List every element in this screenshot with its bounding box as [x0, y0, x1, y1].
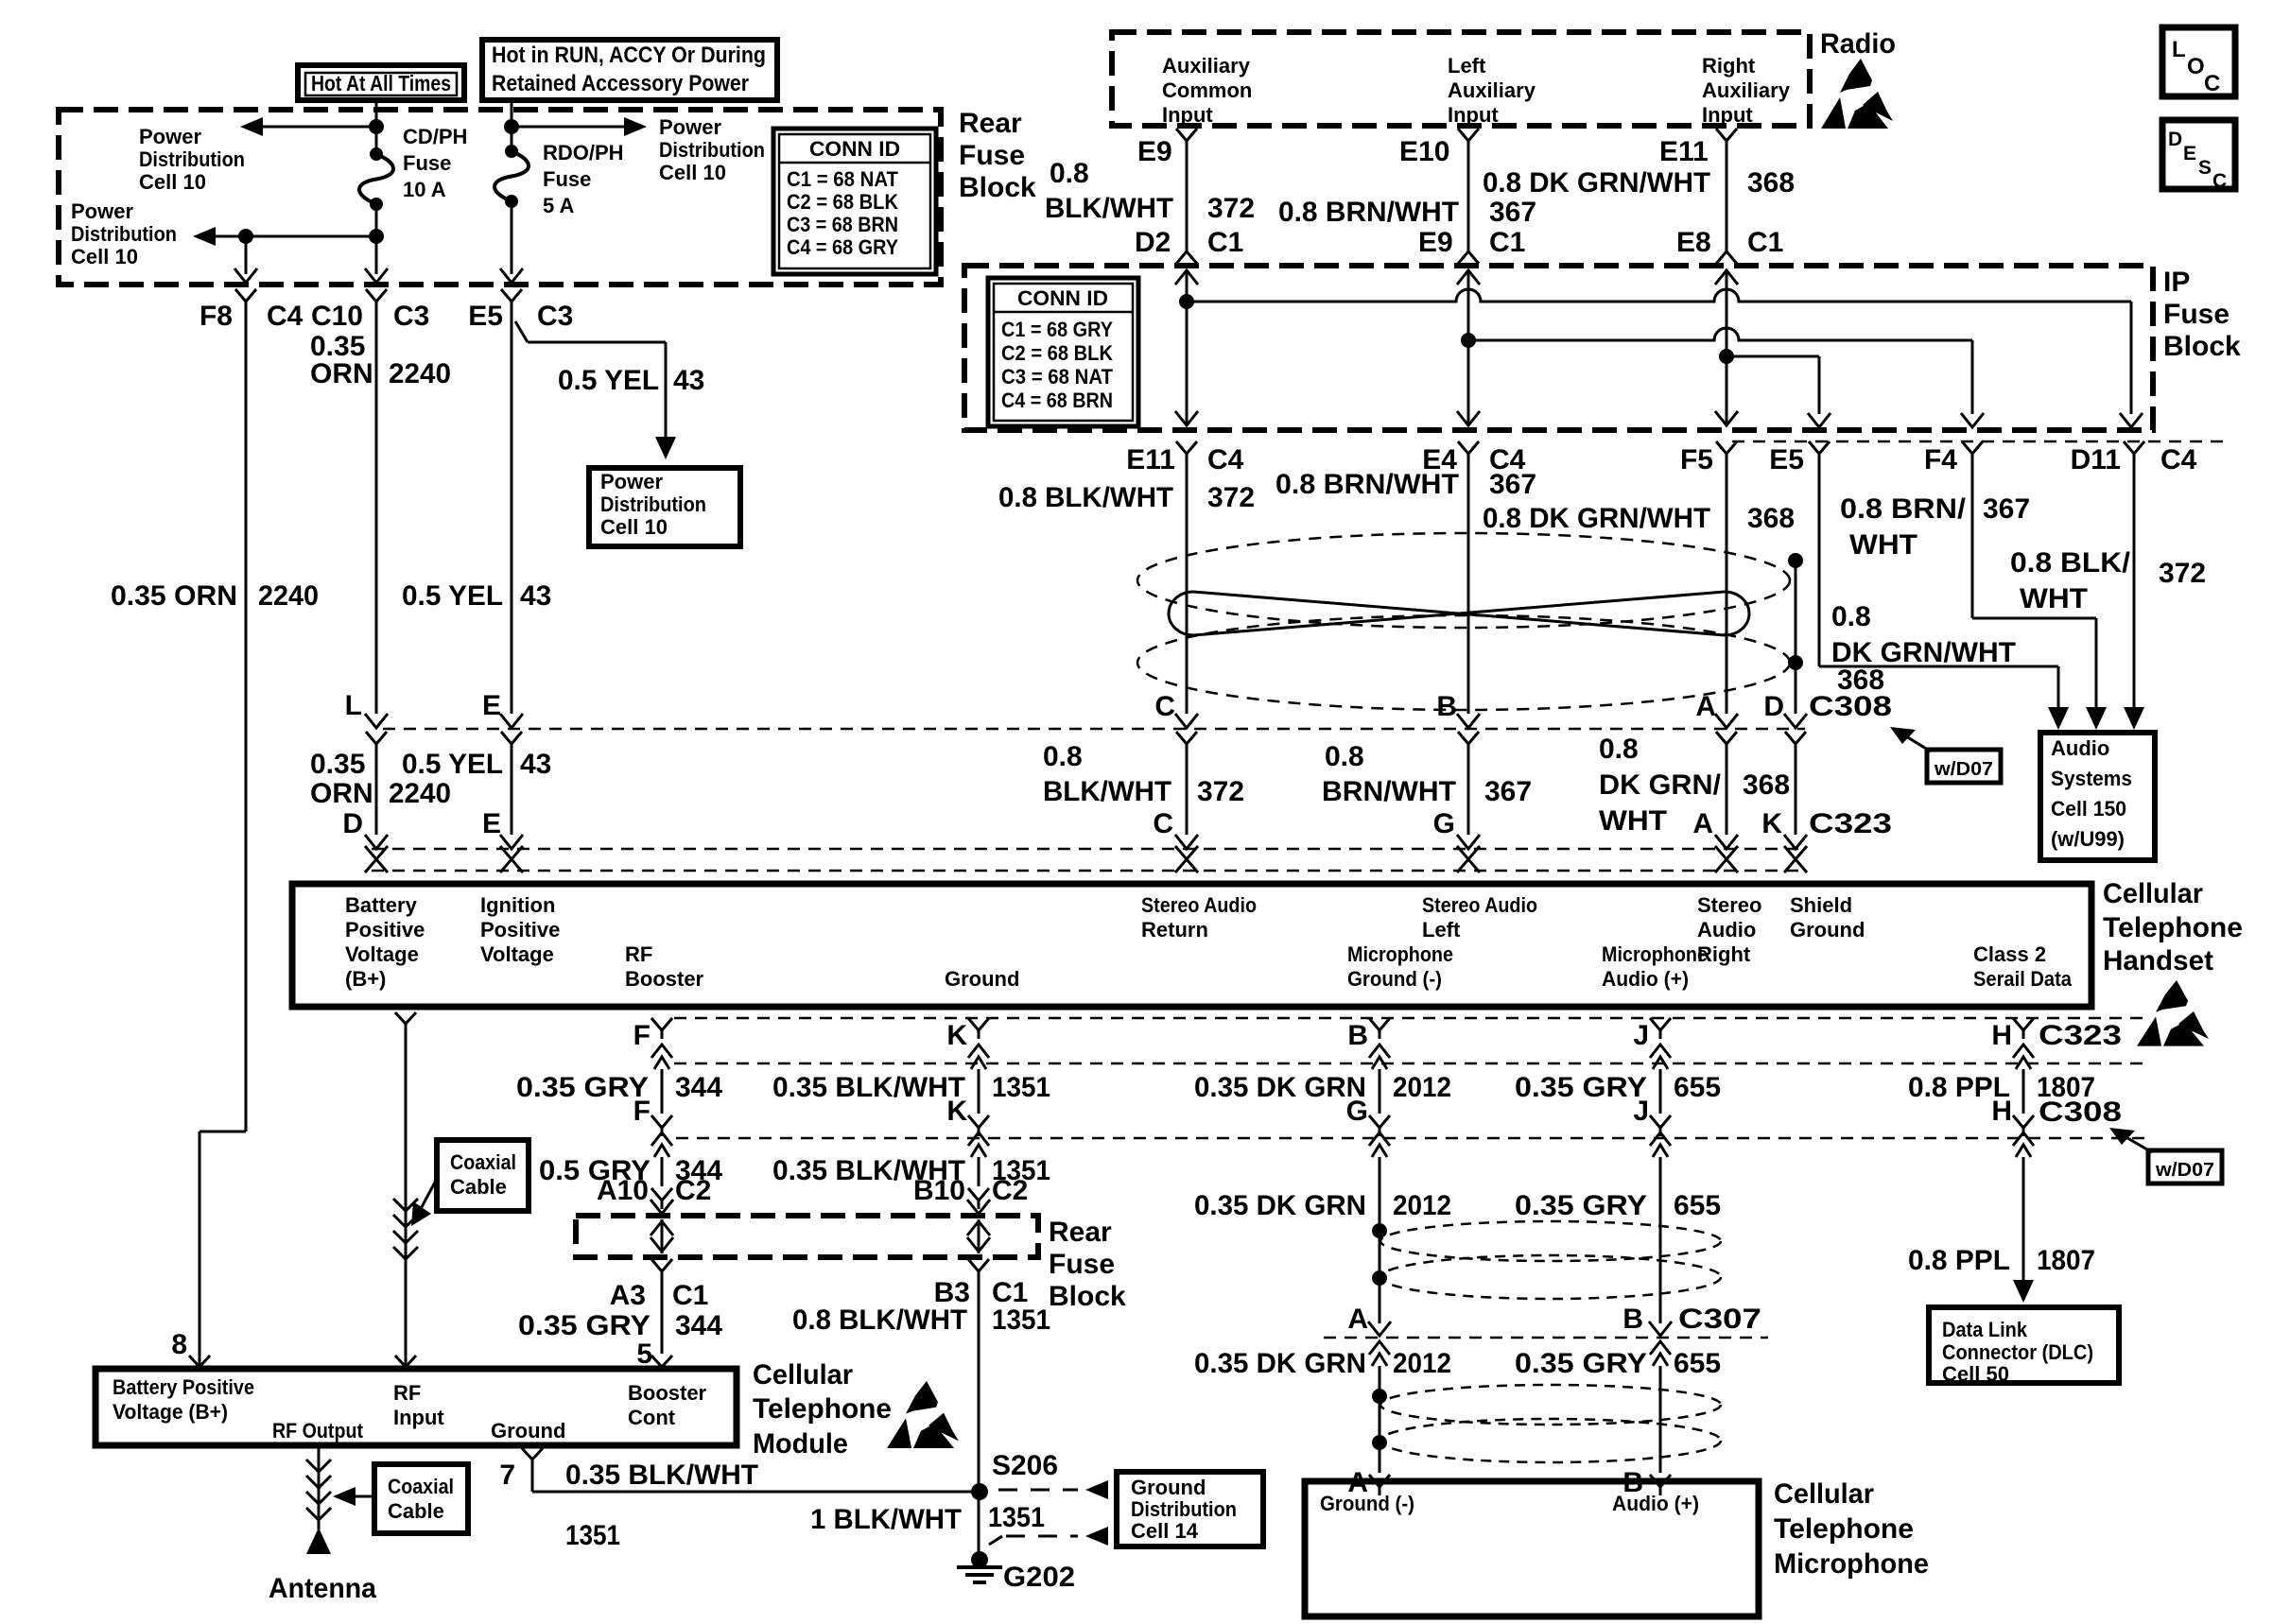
svg-text:C: C	[1153, 808, 1173, 839]
svg-text:0.35 GRY: 0.35 GRY	[1515, 1190, 1647, 1221]
svg-text:0.8: 0.8	[1599, 734, 1639, 765]
svg-text:0.5 YEL: 0.5 YEL	[402, 749, 503, 780]
svg-text:K: K	[1761, 808, 1782, 839]
svg-text:344: 344	[675, 1072, 722, 1103]
svg-text:Input: Input	[1702, 103, 1753, 127]
svg-text:368: 368	[1747, 167, 1795, 199]
svg-text:K: K	[946, 1020, 967, 1051]
svg-text:C323: C323	[2039, 1020, 2122, 1051]
svg-text:Cable: Cable	[388, 1499, 444, 1523]
svg-text:Stereo Audio: Stereo Audio	[1422, 893, 1537, 917]
svg-text:E11: E11	[1659, 136, 1709, 167]
svg-text:ORN: ORN	[310, 358, 373, 389]
svg-text:367: 367	[1983, 493, 2030, 525]
svg-text:Cell 10: Cell 10	[71, 245, 138, 268]
svg-text:WHT: WHT	[1599, 805, 1667, 837]
svg-text:CD/PH: CD/PH	[403, 125, 467, 148]
svg-text:Retained Accessory Power: Retained Accessory Power	[492, 71, 749, 96]
svg-text:0.8: 0.8	[1831, 601, 1871, 632]
svg-text:Ground (-): Ground (-)	[1320, 1492, 1414, 1515]
svg-text:Coaxial: Coaxial	[450, 1150, 516, 1174]
svg-text:C4: C4	[2160, 444, 2197, 475]
svg-text:1351: 1351	[992, 1072, 1050, 1103]
svg-text:C2 = 68 BLK: C2 = 68 BLK	[787, 190, 898, 214]
svg-text:Auxiliary: Auxiliary	[1702, 78, 1791, 102]
svg-text:2012: 2012	[1393, 1072, 1451, 1103]
svg-text:Fuse: Fuse	[1049, 1249, 1115, 1280]
svg-text:Battery Positive: Battery Positive	[113, 1375, 254, 1399]
svg-text:1 BLK/WHT: 1 BLK/WHT	[810, 1504, 962, 1535]
svg-text:Microphone: Microphone	[1602, 942, 1708, 966]
svg-text:C4 = 68 GRY: C4 = 68 GRY	[787, 235, 898, 259]
svg-text:D11: D11	[2071, 444, 2121, 475]
svg-text:Distribution: Distribution	[659, 138, 765, 162]
svg-text:Handset: Handset	[2103, 945, 2213, 976]
svg-text:0.35 GRY: 0.35 GRY	[518, 1310, 651, 1341]
svg-text:C1: C1	[1489, 227, 1525, 258]
svg-text:D: D	[1763, 691, 1784, 722]
svg-text:Fuse: Fuse	[403, 151, 451, 175]
svg-text:C1 = 68 GRY: C1 = 68 GRY	[1001, 318, 1113, 341]
svg-text:B: B	[1347, 1020, 1368, 1051]
svg-text:E: E	[2183, 143, 2196, 164]
svg-text:RF: RF	[393, 1381, 421, 1405]
svg-text:Right: Right	[1702, 54, 1756, 78]
svg-text:0.8: 0.8	[1043, 741, 1083, 772]
svg-text:C307: C307	[1678, 1304, 1761, 1335]
svg-text:Auxiliary: Auxiliary	[1162, 54, 1251, 78]
svg-text:C4: C4	[267, 301, 304, 332]
svg-text:372: 372	[1197, 776, 1244, 807]
svg-text:0.8 BRN/: 0.8 BRN/	[1840, 493, 1967, 525]
svg-text:O: O	[2187, 54, 2205, 79]
svg-text:Cell 10: Cell 10	[600, 515, 668, 539]
svg-text:0.35 DK GRN: 0.35 DK GRN	[1194, 1072, 1366, 1103]
svg-text:43: 43	[673, 365, 704, 396]
svg-text:C2 = 68 BLK: C2 = 68 BLK	[1001, 341, 1113, 365]
svg-text:C3: C3	[537, 301, 573, 332]
svg-text:368: 368	[1743, 769, 1790, 801]
svg-text:Class 2: Class 2	[1973, 942, 2046, 966]
svg-text:Block: Block	[1049, 1281, 1126, 1312]
svg-text:Booster: Booster	[625, 967, 704, 991]
svg-text:C323: C323	[1809, 808, 1892, 839]
svg-text:Audio (+): Audio (+)	[1612, 1492, 1699, 1515]
svg-text:Telephone: Telephone	[753, 1393, 892, 1425]
svg-text:D: D	[342, 808, 363, 839]
svg-text:Hot At All Times: Hot At All Times	[311, 71, 451, 95]
svg-text:F5: F5	[1680, 444, 1713, 475]
svg-text:Power: Power	[600, 470, 663, 493]
svg-text:Cell 14: Cell 14	[1131, 1519, 1199, 1543]
svg-text:655: 655	[1674, 1348, 1721, 1379]
svg-text:RF Output: RF Output	[272, 1419, 364, 1443]
svg-text:0.5 YEL: 0.5 YEL	[402, 580, 503, 612]
svg-text:0.35 GRY: 0.35 GRY	[1515, 1072, 1647, 1103]
svg-text:BLK/WHT: BLK/WHT	[1045, 193, 1173, 224]
svg-text:Microphone: Microphone	[1347, 942, 1453, 966]
svg-text:Antenna: Antenna	[269, 1573, 376, 1604]
svg-text:372: 372	[2159, 558, 2206, 589]
svg-text:Distribution: Distribution	[139, 147, 245, 171]
svg-text:0.8 PPL: 0.8 PPL	[1908, 1245, 2010, 1276]
svg-text:C: C	[2204, 71, 2220, 96]
svg-text:E10: E10	[1399, 136, 1449, 167]
svg-text:Input: Input	[393, 1406, 444, 1429]
svg-text:0.8 BRN/WHT: 0.8 BRN/WHT	[1278, 197, 1459, 228]
svg-text:Cellular: Cellular	[753, 1359, 853, 1391]
svg-text:Shield: Shield	[1790, 893, 1852, 917]
svg-text:CONN ID: CONN ID	[1017, 286, 1108, 310]
svg-text:Data Link: Data Link	[1942, 1318, 2028, 1341]
svg-text:0.35 GRY: 0.35 GRY	[1515, 1348, 1647, 1379]
svg-text:Return: Return	[1141, 918, 1208, 942]
svg-text:Stereo: Stereo	[1697, 893, 1761, 917]
svg-text:Distribution: Distribution	[600, 492, 706, 516]
svg-text:Cellular: Cellular	[1774, 1478, 1874, 1510]
svg-text:C2: C2	[675, 1175, 711, 1206]
svg-text:C: C	[2212, 170, 2227, 192]
svg-text:0.8: 0.8	[1325, 741, 1364, 772]
svg-text:A: A	[1347, 1304, 1368, 1335]
svg-text:Cell 150: Cell 150	[2051, 797, 2126, 821]
svg-text:Ground (-): Ground (-)	[1347, 967, 1442, 991]
svg-text:BRN/WHT: BRN/WHT	[1322, 776, 1456, 807]
svg-text:2240: 2240	[389, 778, 451, 809]
svg-text:Ground: Ground	[945, 967, 1019, 991]
svg-text:Cell 10: Cell 10	[659, 161, 726, 184]
svg-text:S206: S206	[992, 1450, 1058, 1481]
svg-text:WHT: WHT	[2020, 583, 2088, 614]
svg-text:Cellular: Cellular	[2103, 878, 2203, 909]
svg-text:Power: Power	[659, 115, 721, 139]
svg-text:655: 655	[1674, 1190, 1721, 1221]
svg-text:w/D07: w/D07	[1934, 759, 1993, 780]
svg-text:Audio: Audio	[2051, 736, 2109, 760]
svg-text:0.35 BLK/WHT: 0.35 BLK/WHT	[565, 1460, 758, 1491]
svg-text:0.8 PPL: 0.8 PPL	[1908, 1072, 2010, 1103]
svg-text:2012: 2012	[1393, 1348, 1451, 1379]
svg-text:C10: C10	[311, 301, 363, 332]
svg-text:655: 655	[1674, 1072, 1721, 1103]
svg-text:Ground: Ground	[491, 1419, 565, 1443]
svg-text:Hot in RUN, ACCY Or During: Hot in RUN, ACCY Or During	[492, 43, 766, 68]
svg-text:Module: Module	[753, 1428, 848, 1460]
svg-text:Telephone: Telephone	[1774, 1513, 1914, 1545]
svg-text:S: S	[2198, 157, 2212, 179]
svg-text:Systems: Systems	[2051, 767, 2132, 790]
svg-text:G: G	[1433, 808, 1455, 839]
svg-text:0.8 BLK/WHT: 0.8 BLK/WHT	[792, 1304, 967, 1336]
svg-text:C: C	[1154, 691, 1175, 722]
svg-text:Ground: Ground	[1131, 1476, 1206, 1499]
svg-text:F8: F8	[200, 301, 233, 332]
svg-text:0.8 BLK/WHT: 0.8 BLK/WHT	[998, 482, 1173, 513]
svg-text:Left: Left	[1422, 918, 1461, 942]
svg-text:5: 5	[636, 1339, 652, 1370]
svg-text:C2: C2	[992, 1175, 1028, 1206]
svg-text:1351: 1351	[565, 1520, 620, 1551]
svg-text:10 A: 10 A	[403, 178, 446, 201]
svg-text:Ignition: Ignition	[480, 893, 555, 917]
svg-text:E: E	[482, 690, 501, 721]
svg-text:372: 372	[1207, 193, 1255, 224]
svg-text:368: 368	[1747, 503, 1795, 534]
svg-text:WHT: WHT	[1849, 529, 1917, 561]
svg-text:367: 367	[1489, 197, 1536, 228]
svg-text:B: B	[1622, 1304, 1643, 1335]
svg-text:A: A	[1695, 691, 1716, 722]
svg-text:DK GRN/: DK GRN/	[1599, 769, 1722, 801]
svg-text:A: A	[1692, 808, 1713, 839]
svg-text:(B+): (B+)	[345, 967, 386, 991]
svg-text:C3 = 68 BRN: C3 = 68 BRN	[787, 213, 898, 236]
svg-text:Fuse: Fuse	[959, 140, 1025, 171]
svg-text:0.35 ORN: 0.35 ORN	[111, 580, 237, 612]
svg-text:Voltage (B+): Voltage (B+)	[113, 1400, 228, 1424]
svg-text:C3: C3	[393, 301, 429, 332]
svg-text:Right: Right	[1697, 942, 1751, 966]
svg-text:L: L	[345, 690, 362, 721]
svg-text:Distribution: Distribution	[1131, 1497, 1237, 1521]
svg-text:E: E	[482, 808, 501, 839]
svg-text:ORN: ORN	[310, 778, 373, 809]
svg-text:BLK/WHT: BLK/WHT	[1043, 776, 1171, 807]
svg-text:0.35 DK GRN: 0.35 DK GRN	[1194, 1348, 1366, 1379]
svg-text:B10: B10	[913, 1175, 965, 1206]
svg-text:C1 = 68 NAT: C1 = 68 NAT	[787, 167, 899, 191]
svg-text:0.5 YEL: 0.5 YEL	[558, 365, 659, 396]
svg-text:0.8 BLK/: 0.8 BLK/	[2010, 547, 2131, 579]
svg-text:367: 367	[1489, 469, 1536, 500]
svg-text:0.35 BLK/WHT: 0.35 BLK/WHT	[772, 1072, 965, 1103]
svg-text:E8: E8	[1676, 227, 1711, 258]
svg-text:C4 = 68 BRN: C4 = 68 BRN	[1001, 389, 1113, 412]
svg-text:C308: C308	[1809, 691, 1892, 722]
svg-text:C3 = 68 NAT: C3 = 68 NAT	[1001, 365, 1114, 389]
svg-text:Rear: Rear	[1049, 1217, 1112, 1248]
svg-text:D2: D2	[1135, 227, 1171, 258]
svg-text:Audio (+): Audio (+)	[1602, 967, 1689, 991]
svg-text:(w/U99): (w/U99)	[2051, 827, 2125, 851]
svg-text:B: B	[1436, 691, 1457, 722]
svg-text:C1: C1	[672, 1280, 708, 1311]
svg-text:Common: Common	[1162, 78, 1252, 102]
svg-text:0.8 BRN/WHT: 0.8 BRN/WHT	[1275, 469, 1459, 500]
svg-text:RDO/PH: RDO/PH	[543, 141, 624, 164]
svg-text:Fuse: Fuse	[543, 167, 591, 191]
svg-text:Cell 50: Cell 50	[1942, 1362, 2009, 1386]
svg-text:D: D	[2168, 129, 2182, 150]
svg-text:Distribution: Distribution	[71, 222, 177, 246]
svg-text:1351: 1351	[988, 1502, 1045, 1533]
svg-text:43: 43	[520, 580, 551, 612]
svg-text:Positive: Positive	[480, 918, 560, 942]
svg-text:7: 7	[499, 1460, 515, 1491]
svg-text:Voltage: Voltage	[345, 942, 419, 966]
svg-text:E9: E9	[1418, 227, 1453, 258]
svg-text:Left: Left	[1448, 54, 1486, 78]
svg-text:Battery: Battery	[345, 893, 418, 917]
svg-text:Voltage: Voltage	[480, 942, 554, 966]
svg-text:1807: 1807	[2037, 1245, 2095, 1276]
svg-text:Serail Data: Serail Data	[1973, 967, 2073, 991]
svg-text:A10: A10	[597, 1175, 649, 1206]
svg-text:Cell 10: Cell 10	[139, 170, 206, 194]
svg-text:G202: G202	[1003, 1562, 1075, 1593]
svg-text:Power: Power	[139, 125, 201, 148]
svg-text:Connector (DLC): Connector (DLC)	[1942, 1340, 2093, 1364]
svg-text:Cable: Cable	[450, 1175, 507, 1199]
svg-text:w/D07: w/D07	[2155, 1160, 2214, 1181]
svg-text:RF: RF	[625, 942, 652, 966]
svg-text:2012: 2012	[1393, 1190, 1451, 1221]
svg-text:IP: IP	[2163, 267, 2190, 298]
svg-text:E5: E5	[468, 301, 503, 332]
svg-text:Microphone: Microphone	[1774, 1548, 1929, 1580]
svg-text:8: 8	[171, 1329, 187, 1360]
svg-text:J: J	[1633, 1020, 1649, 1051]
svg-text:Cont: Cont	[628, 1406, 676, 1429]
svg-text:0.35 GRY: 0.35 GRY	[516, 1072, 649, 1103]
svg-text:0.35: 0.35	[310, 749, 365, 780]
svg-text:F4: F4	[1924, 444, 1957, 475]
svg-text:372: 372	[1207, 482, 1255, 513]
svg-text:Positive: Positive	[345, 918, 425, 942]
svg-text:Stereo Audio: Stereo Audio	[1141, 893, 1257, 917]
svg-text:C4: C4	[1207, 444, 1244, 475]
svg-text:Auxiliary: Auxiliary	[1448, 78, 1536, 102]
svg-text:Telephone: Telephone	[2103, 912, 2243, 943]
svg-text:C1: C1	[1207, 227, 1243, 258]
svg-text:0.8 DK GRN/WHT: 0.8 DK GRN/WHT	[1483, 503, 1710, 534]
svg-text:0.8: 0.8	[1050, 158, 1089, 189]
svg-text:Booster: Booster	[628, 1381, 707, 1405]
svg-text:E11: E11	[1126, 444, 1175, 475]
svg-text:Radio: Radio	[1820, 28, 1896, 60]
svg-text:Power: Power	[71, 199, 133, 223]
svg-text:1351: 1351	[992, 1304, 1050, 1336]
svg-text:A3: A3	[610, 1280, 646, 1311]
svg-text:344: 344	[675, 1310, 722, 1341]
svg-text:L: L	[2172, 37, 2186, 62]
svg-text:H: H	[1991, 1020, 2012, 1051]
svg-text:CONN ID: CONN ID	[809, 137, 900, 161]
svg-text:Audio: Audio	[1697, 918, 1756, 942]
svg-text:43: 43	[520, 749, 551, 780]
svg-text:Input: Input	[1448, 103, 1499, 127]
svg-text:E5: E5	[1769, 444, 1804, 475]
svg-text:Coaxial: Coaxial	[388, 1475, 454, 1498]
svg-text:2240: 2240	[389, 358, 451, 389]
svg-text:1807: 1807	[2037, 1072, 2095, 1103]
svg-text:0.35 DK GRN: 0.35 DK GRN	[1194, 1190, 1366, 1221]
svg-text:Ground: Ground	[1790, 918, 1865, 942]
svg-text:Input: Input	[1162, 103, 1213, 127]
svg-text:Block: Block	[2163, 331, 2241, 362]
svg-text:5 A: 5 A	[543, 194, 575, 217]
svg-text:C1: C1	[1747, 227, 1783, 258]
svg-text:0.8 DK GRN/WHT: 0.8 DK GRN/WHT	[1483, 167, 1710, 199]
svg-text:Rear: Rear	[959, 108, 1022, 139]
svg-text:F: F	[633, 1020, 651, 1051]
svg-text:2240: 2240	[258, 580, 319, 612]
svg-text:Fuse: Fuse	[2163, 299, 2230, 330]
svg-text:Block: Block	[959, 172, 1036, 203]
svg-text:367: 367	[1484, 776, 1532, 807]
svg-text:E9: E9	[1137, 136, 1172, 167]
